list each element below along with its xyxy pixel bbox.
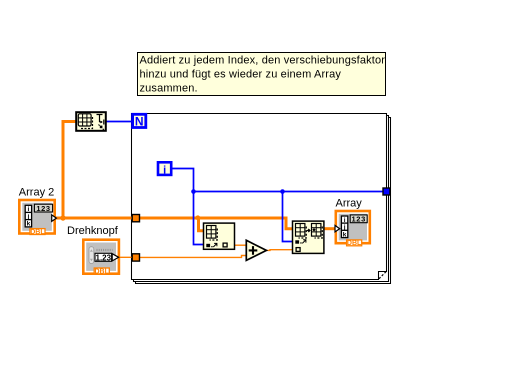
ras element glyph [295, 240, 299, 243]
function: add [246, 240, 266, 260]
indicator: Array [335, 211, 370, 247]
svg-text:i: i [27, 206, 29, 213]
svg-text:123: 123 [352, 215, 366, 224]
svg-text:DBL: DBL [95, 268, 110, 275]
svg-text:Addiert zu jedem Index, den ve: Addiert zu jedem Index, den verschiebung… [140, 55, 386, 67]
svg-text:1.23: 1.23 [96, 253, 112, 262]
junction dot orange inside loop [195, 215, 200, 220]
for loop resize dog-ear [379, 272, 386, 279]
comment label box [138, 53, 386, 96]
ras right grid [312, 224, 321, 237]
array 2 DBL tag [30, 229, 45, 235]
junction dot blue left [191, 189, 196, 194]
wire: upper tunnel to Replace Array Subset (thick orange) [136, 218, 293, 229]
svg-text:123: 123 [36, 204, 50, 213]
function: Index Array [204, 223, 235, 249]
svg-text:Array 2: Array 2 [19, 186, 54, 198]
tunnel: lower orange tunnel [132, 254, 139, 261]
for loop frame shadow 1 [134, 116, 389, 282]
wire: branch down to Index Array (thick orange) [197, 218, 204, 231]
N count terminal [133, 114, 146, 128]
tunnel: blue output tunnel on right border [383, 188, 390, 195]
array size grid [78, 114, 91, 126]
svg-text:hinzu und fügt es wieder zu ei: hinzu und fügt es wieder zu einem Array [140, 69, 342, 81]
svg-text:i: i [344, 217, 346, 224]
array 123 display [350, 215, 367, 223]
wire: lower tunnel to add lower input (thin orange) [136, 256, 246, 258]
svg-text:N: N [135, 115, 144, 129]
svg-text:i: i [163, 165, 166, 177]
drehknopf 1.23 display [95, 253, 112, 261]
svg-text:zusammen.: zusammen. [140, 83, 198, 95]
svg-text:Drehknopf: Drehknopf [67, 225, 119, 237]
array 2 123 display [34, 204, 52, 212]
array 2 ijk boxes [25, 205, 31, 227]
junction dot blue right [280, 189, 285, 194]
wire: junction up to Array Size (thick orange) [62, 122, 76, 220]
wire: Drehknopf to tunnel (thin orange) [119, 256, 136, 258]
drehknopf output arrow [112, 254, 119, 261]
svg-text:j: j [26, 213, 29, 220]
wire: add output to Replace Array Subset (thin orange) [267, 249, 293, 252]
svg-text:k: k [343, 231, 347, 238]
index array grid shadow [210, 229, 218, 241]
ras arrow [307, 229, 310, 232]
index array element glyph [206, 244, 210, 247]
tunnel: upper orange tunnel [132, 215, 139, 222]
drehknopf ticks [97, 249, 113, 251]
function: Replace Array Subset [293, 221, 324, 253]
array input arrow [335, 225, 340, 232]
i iteration terminal [158, 162, 171, 176]
wire: Replace Array Subset output to Array indicator (thick orange) [324, 227, 336, 230]
array size grid shadow [81, 117, 93, 129]
drehknopf spinner [89, 247, 94, 264]
ras left grid [296, 224, 305, 237]
ras index box [296, 248, 300, 252]
junction dot at Array 2 output [60, 215, 65, 220]
array 2 output arrow [52, 215, 57, 222]
index array grid [207, 226, 216, 239]
drehknopf DBL tag [94, 268, 109, 274]
array DBL tag [347, 240, 362, 246]
svg-text:k: k [27, 221, 31, 228]
ras left grid shadow [299, 227, 307, 239]
function: Array Size U1 [76, 112, 106, 131]
wire: Array Size to N (blue) [107, 121, 132, 123]
array size caliper glyph [97, 115, 104, 125]
wire: main blue horizontal to tunnel [194, 191, 384, 193]
svg-text:DBL: DBL [30, 229, 45, 236]
index array index box [223, 243, 227, 247]
wire: blue down to Index Array index input [194, 192, 204, 245]
control: Array 2 [19, 200, 56, 236]
array ijk boxes [341, 216, 347, 238]
wire: Index Array output to add upper input (thin orange) [235, 244, 247, 246]
svg-text:j: j [343, 224, 346, 231]
svg-text:Array: Array [336, 198, 363, 210]
for loop main frame [132, 114, 387, 280]
wire: blue down to Replace Array Subset index input [283, 192, 293, 242]
ras right grid shadow [315, 227, 323, 239]
svg-text:DBL: DBL [347, 240, 362, 247]
for loop frame shadow 2 [136, 118, 391, 284]
control: Drehknopf [83, 240, 119, 276]
wire: i terminal to blue junction [173, 169, 194, 192]
wire: Array 2 to junction to tunnel (thick orange) [56, 217, 135, 220]
ras replaced element diamond [312, 228, 315, 232]
